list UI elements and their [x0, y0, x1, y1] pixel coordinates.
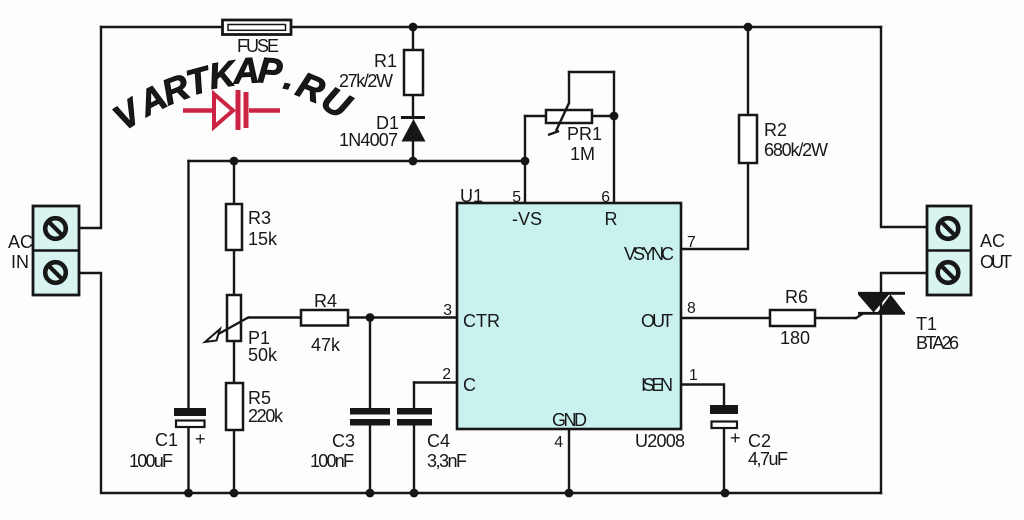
svg-text:15k: 15k [248, 229, 278, 249]
svg-text:OUT: OUT [980, 252, 1012, 272]
svg-text:OUT: OUT [641, 311, 673, 331]
svg-text:R6: R6 [785, 287, 808, 307]
svg-text:VSYNC: VSYNC [624, 244, 674, 264]
svg-text:PR1: PR1 [567, 124, 602, 144]
svg-text:1: 1 [689, 367, 698, 384]
svg-text:+: + [195, 429, 206, 449]
svg-text:ISEN: ISEN [641, 375, 673, 395]
svg-text:-VS: -VS [512, 209, 542, 229]
svg-text:R1: R1 [374, 51, 397, 71]
svg-text:2: 2 [442, 366, 451, 383]
svg-text:27k/2W: 27k/2W [339, 71, 393, 91]
svg-text:R: R [605, 209, 618, 229]
svg-text:4: 4 [554, 434, 563, 451]
svg-text:8: 8 [687, 300, 696, 317]
svg-text:50k: 50k [248, 345, 278, 365]
svg-text:U2008: U2008 [635, 431, 685, 451]
svg-text:C1: C1 [155, 430, 178, 450]
svg-text:6: 6 [601, 189, 610, 206]
svg-text:U1: U1 [460, 186, 483, 206]
svg-text:R4: R4 [314, 291, 337, 311]
svg-text:220k: 220k [248, 406, 284, 426]
svg-text:100nF: 100nF [310, 451, 354, 471]
svg-text:C: C [463, 375, 476, 395]
svg-text:5: 5 [512, 189, 521, 206]
svg-text:BTA26: BTA26 [916, 333, 959, 353]
svg-text:C3: C3 [332, 431, 355, 451]
svg-text:C2: C2 [748, 431, 771, 451]
svg-text:100uF: 100uF [129, 451, 173, 471]
svg-text:3: 3 [443, 302, 452, 319]
svg-text:4,7uF: 4,7uF [748, 449, 788, 469]
svg-text:180: 180 [780, 328, 810, 348]
svg-text:+: + [730, 428, 741, 448]
svg-text:7: 7 [687, 234, 696, 251]
svg-text:FUSE: FUSE [237, 36, 279, 56]
svg-text:3,3nF: 3,3nF [427, 451, 467, 471]
svg-text:R3: R3 [248, 208, 271, 228]
svg-text:1M: 1M [570, 144, 595, 164]
svg-text:C4: C4 [427, 431, 450, 451]
svg-text:47k: 47k [311, 335, 341, 355]
svg-text:1N4007: 1N4007 [339, 130, 398, 150]
svg-text:AC: AC [980, 231, 1005, 251]
svg-text:CTR: CTR [463, 311, 500, 331]
svg-text:GND: GND [552, 410, 587, 430]
svg-text:R5: R5 [248, 388, 271, 408]
svg-text:IN: IN [11, 252, 29, 272]
svg-text:T1: T1 [916, 314, 937, 334]
svg-text:R2: R2 [764, 120, 787, 140]
svg-text:680k/2W: 680k/2W [764, 140, 828, 160]
svg-text:AC: AC [8, 232, 33, 252]
